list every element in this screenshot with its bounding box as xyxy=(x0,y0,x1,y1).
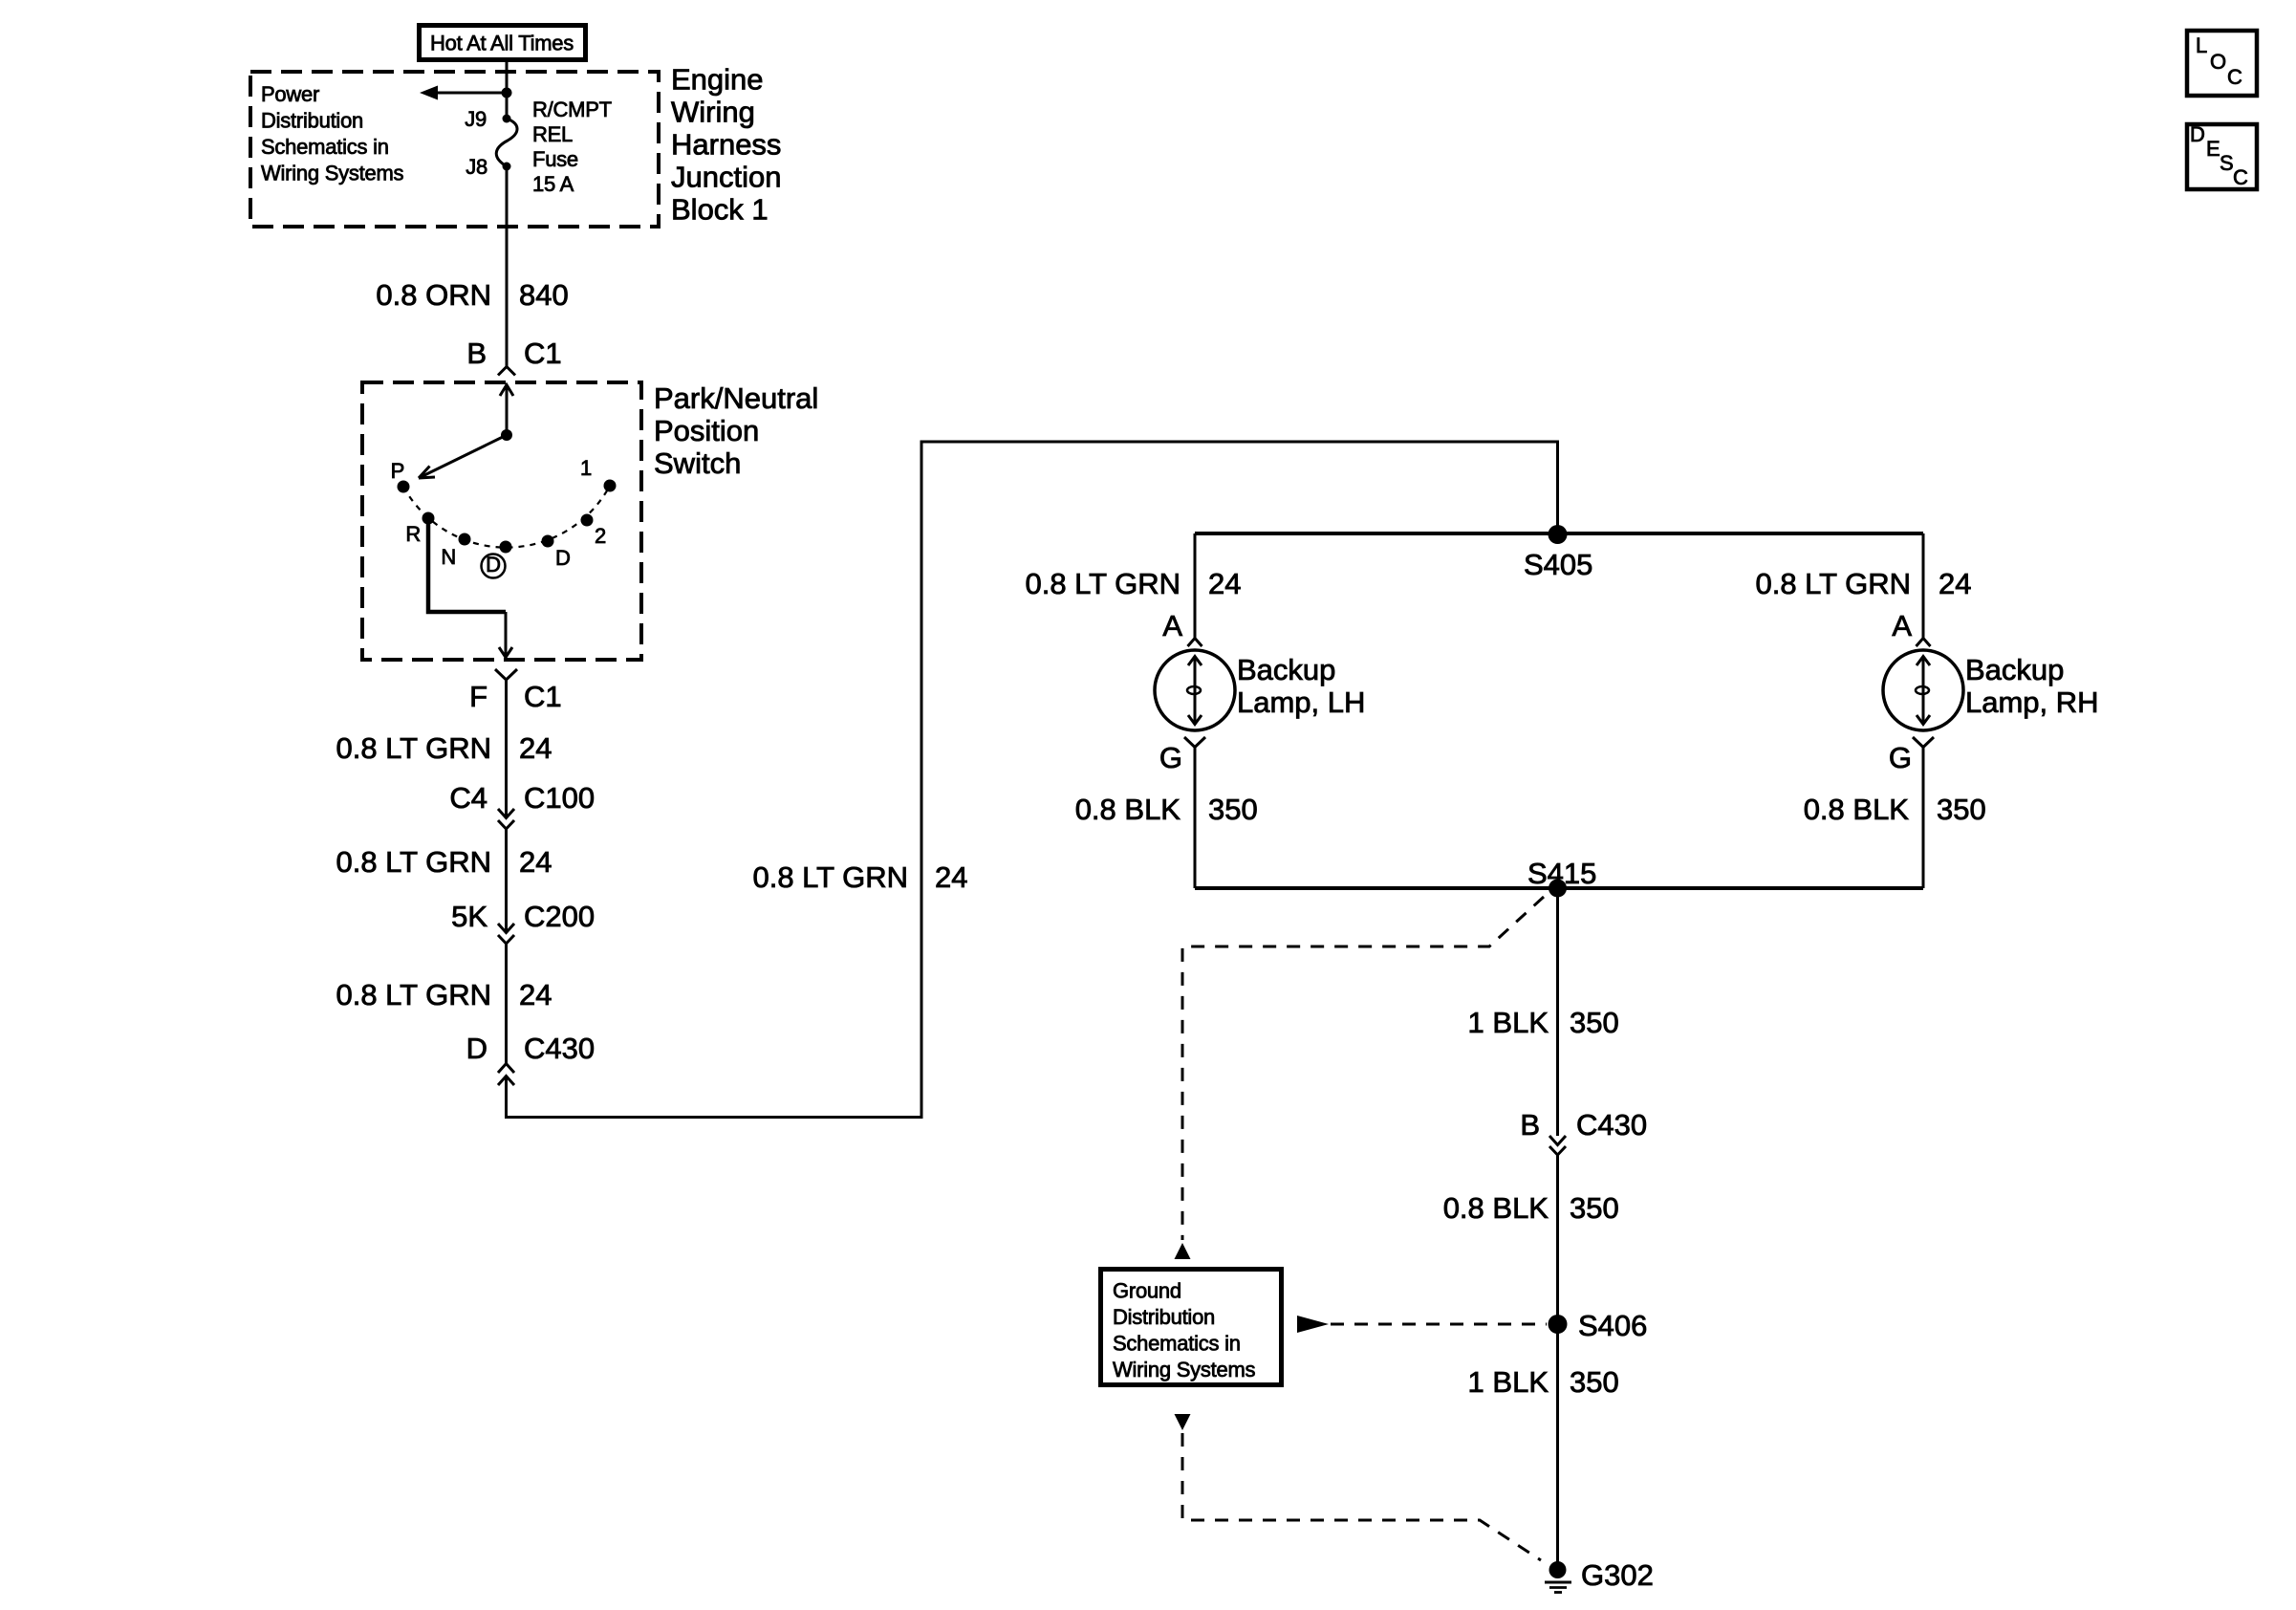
switch arm (wiper to P) xyxy=(419,435,507,478)
svg-text:0.8 LT GRN: 0.8 LT GRN xyxy=(752,860,908,894)
lamp: Backup Lamp LH xyxy=(1155,650,1235,730)
svg-text:Schematics in: Schematics in xyxy=(261,135,389,159)
svg-text:24: 24 xyxy=(519,845,552,879)
junction block J dashed box xyxy=(250,72,659,227)
svg-text:0.8 LT GRN: 0.8 LT GRN xyxy=(336,978,491,1012)
svg-text:Schematics in: Schematics in xyxy=(1113,1332,1241,1356)
wire: 0.8 LT GRN 24 (C200 to C430) xyxy=(505,944,508,1063)
wire: RH lamp ground 0.8 BLK 350 xyxy=(1922,748,1925,889)
svg-text:Wiring: Wiring xyxy=(671,96,755,129)
svg-text:0.8 LT GRN: 0.8 LT GRN xyxy=(1025,567,1180,600)
svg-text:Junction: Junction xyxy=(671,161,781,194)
wire: run to S405 (down, right, up, right) xyxy=(507,442,1558,1118)
svg-text:24: 24 xyxy=(1939,567,1971,600)
legend box DESC xyxy=(2187,122,2257,189)
svg-text:G: G xyxy=(1889,741,1912,774)
svg-text:Position: Position xyxy=(654,414,759,447)
svg-text:C430: C430 xyxy=(524,1032,595,1065)
wire: RH lamp branch 0.8 LT GRN 24 xyxy=(1922,533,1925,639)
svg-text:0.8 BLK: 0.8 BLK xyxy=(1075,793,1181,826)
svg-text:D: D xyxy=(486,553,501,577)
wire: 0.8 LT GRN 24 (C100 to C200) xyxy=(505,829,508,932)
svg-text:C100: C100 xyxy=(524,781,595,815)
svg-text:O: O xyxy=(2210,50,2226,74)
contact P xyxy=(398,481,410,493)
circled D symbol xyxy=(482,553,506,578)
contact D (right) xyxy=(542,535,554,548)
switch pivot node xyxy=(501,429,512,441)
contact R xyxy=(422,512,435,525)
svg-text:E: E xyxy=(2206,137,2220,161)
svg-text:A: A xyxy=(1892,609,1912,642)
wire: lamp ground rail (bottom) xyxy=(1195,886,1923,890)
wire label 1 BLK 350 (S406 to G302) xyxy=(1468,1365,1619,1399)
dashed pointer: reference box to S406 (right arrow) xyxy=(1297,1316,1547,1333)
wire: fuse output 0.8 ORN 840 xyxy=(506,166,509,366)
connector C1 pin F xyxy=(469,669,562,713)
svg-text:Power: Power xyxy=(261,82,319,106)
wire: 1 BLK 350 (S415 to C430) xyxy=(1556,888,1559,1136)
svg-text:840: 840 xyxy=(519,278,569,312)
label box "Hot At All Times" xyxy=(420,26,586,60)
wire: arrow to Power Distribution (left) xyxy=(420,86,507,100)
fuse R/CMPT REL Fuse 15 A (J9-J8) xyxy=(496,115,517,171)
splice S415 xyxy=(1527,857,1596,898)
svg-text:Switch: Switch xyxy=(654,446,741,480)
legend box LOC xyxy=(2187,31,2257,96)
svg-text:2: 2 xyxy=(595,524,606,548)
svg-text:Distribution: Distribution xyxy=(1113,1305,1215,1329)
splice S405 xyxy=(1524,525,1592,581)
svg-text:Wiring Systems: Wiring Systems xyxy=(1113,1358,1256,1382)
wire: LH lamp ground 0.8 BLK 350 xyxy=(1194,748,1197,889)
connector C430 pin D xyxy=(466,1032,596,1085)
connector pin A (LH lamp) xyxy=(1162,609,1202,646)
svg-text:0.8 ORN: 0.8 ORN xyxy=(376,278,491,312)
svg-text:J8: J8 xyxy=(466,155,487,179)
wire: LH lamp branch 0.8 LT GRN 24 xyxy=(1194,533,1197,639)
svg-text:C: C xyxy=(2233,165,2248,189)
park/neutral position switch dashed box xyxy=(362,382,641,660)
svg-text:D: D xyxy=(555,546,571,570)
dashed pointer: reference box to G302 (down arrow) xyxy=(1175,1414,1542,1560)
svg-text:Backup: Backup xyxy=(1965,653,2064,686)
contact 1 xyxy=(604,480,617,492)
svg-text:Block 1: Block 1 xyxy=(671,193,769,227)
svg-text:24: 24 xyxy=(519,978,552,1012)
svg-text:Ground: Ground xyxy=(1113,1279,1181,1303)
svg-text:B: B xyxy=(466,337,487,370)
svg-text:Wiring Systems: Wiring Systems xyxy=(261,162,404,185)
svg-text:C430: C430 xyxy=(1576,1108,1647,1142)
svg-text:Hot At All Times: Hot At All Times xyxy=(430,32,574,55)
svg-text:350: 350 xyxy=(1570,1006,1619,1039)
svg-text:350: 350 xyxy=(1208,793,1258,826)
svg-text:C: C xyxy=(2227,65,2242,89)
svg-text:P: P xyxy=(391,459,404,483)
svg-text:C200: C200 xyxy=(524,900,595,933)
svg-text:Harness: Harness xyxy=(671,128,781,162)
svg-text:L: L xyxy=(2196,33,2207,57)
node: junction dot at feed xyxy=(502,88,512,98)
reference box: Ground Distribution Schematics in Wiring Systems xyxy=(1101,1270,1282,1385)
svg-text:Park/Neutral: Park/Neutral xyxy=(654,381,818,415)
svg-text:5K: 5K xyxy=(451,900,487,933)
svg-text:350: 350 xyxy=(1570,1365,1619,1399)
connector C1 pin B xyxy=(466,337,561,376)
svg-text:15 A: 15 A xyxy=(532,172,574,196)
svg-text:REL: REL xyxy=(532,122,573,146)
svg-text:Engine: Engine xyxy=(671,63,764,97)
svg-text:Backup: Backup xyxy=(1237,653,1335,686)
svg-text:24: 24 xyxy=(1208,567,1241,600)
svg-text:F: F xyxy=(469,680,487,713)
svg-text:0.8 BLK: 0.8 BLK xyxy=(1804,793,1910,826)
wire: switch input with up arrow xyxy=(500,385,513,436)
contact 2 xyxy=(581,514,594,527)
svg-text:1 BLK: 1 BLK xyxy=(1468,1006,1549,1039)
svg-text:1 BLK: 1 BLK xyxy=(1468,1365,1549,1399)
contact N xyxy=(459,533,471,546)
svg-text:Lamp, LH: Lamp, LH xyxy=(1237,685,1365,719)
note: Power Distribution Schematics in Wiring Systems xyxy=(261,82,404,185)
dashed contact arc xyxy=(403,486,610,548)
connector pin G (RH lamp) xyxy=(1889,737,1934,774)
svg-text:S: S xyxy=(2220,151,2233,175)
ground G302 xyxy=(1545,1558,1654,1593)
svg-text:24: 24 xyxy=(519,731,552,765)
svg-text:350: 350 xyxy=(1937,793,1986,826)
svg-text:350: 350 xyxy=(1570,1191,1619,1225)
svg-text:S405: S405 xyxy=(1524,548,1592,581)
wire: R contact to switch output xyxy=(428,520,506,612)
connector C200 pin 5K xyxy=(451,900,595,944)
svg-text:Lamp, RH: Lamp, RH xyxy=(1965,685,2099,719)
svg-text:C1: C1 xyxy=(524,680,562,713)
dashed pointer: S415 to reference box (up arrow) xyxy=(1175,897,1545,1259)
connector C430 pin B xyxy=(1520,1108,1647,1155)
svg-text:C4: C4 xyxy=(449,781,487,815)
svg-text:C1: C1 xyxy=(524,337,562,370)
svg-text:1: 1 xyxy=(580,456,592,480)
wire: 0.8 LT GRN 24 (switch to C100) xyxy=(505,680,508,817)
wire: battery feed from Hot At All Times into junction block xyxy=(506,61,509,119)
svg-text:Distribution: Distribution xyxy=(261,109,363,133)
connector pin G (LH lamp) xyxy=(1159,737,1205,774)
svg-text:S406: S406 xyxy=(1578,1309,1647,1342)
wire label 0.8 ORN 840 xyxy=(376,278,568,312)
component label: Backup Lamp, RH xyxy=(1965,653,2099,719)
wire: lamp feed rail (top) xyxy=(1195,532,1923,535)
splice S406 xyxy=(1549,1309,1648,1342)
svg-text:Fuse: Fuse xyxy=(532,147,578,171)
svg-text:0.8 BLK: 0.8 BLK xyxy=(1443,1191,1549,1225)
svg-text:A: A xyxy=(1162,609,1182,642)
svg-text:D: D xyxy=(466,1032,487,1065)
svg-text:0.8 LT GRN: 0.8 LT GRN xyxy=(336,731,491,765)
svg-text:0.8 LT GRN: 0.8 LT GRN xyxy=(1755,567,1911,600)
component label: Park/Neutral Position Switch xyxy=(654,381,818,480)
connector C100 pin C4 xyxy=(449,781,595,829)
svg-text:B: B xyxy=(1520,1108,1540,1142)
svg-text:N: N xyxy=(441,545,456,569)
component label: Engine Wiring Harness Junction Block 1 xyxy=(671,63,781,227)
svg-text:24: 24 xyxy=(935,860,967,894)
component label: Backup Lamp, LH xyxy=(1237,653,1365,719)
svg-text:R/CMPT: R/CMPT xyxy=(532,98,612,121)
wire label 0.8 LT GRN 24 on riser xyxy=(752,860,967,894)
svg-text:D: D xyxy=(2190,122,2205,146)
connector pin A (RH lamp) xyxy=(1892,609,1930,646)
svg-text:0.8 LT GRN: 0.8 LT GRN xyxy=(336,845,491,879)
wire: 0.8 BLK 350 (C430 to S406) xyxy=(1556,1155,1559,1570)
svg-text:S415: S415 xyxy=(1527,857,1596,890)
svg-text:R: R xyxy=(405,522,421,546)
value label: R/CMPT REL Fuse 15 A xyxy=(532,98,612,196)
svg-text:J9: J9 xyxy=(465,107,487,131)
lamp: Backup Lamp RH xyxy=(1883,650,1963,730)
svg-text:G302: G302 xyxy=(1581,1558,1654,1592)
contact D (center) xyxy=(500,541,512,554)
svg-text:G: G xyxy=(1159,741,1182,774)
